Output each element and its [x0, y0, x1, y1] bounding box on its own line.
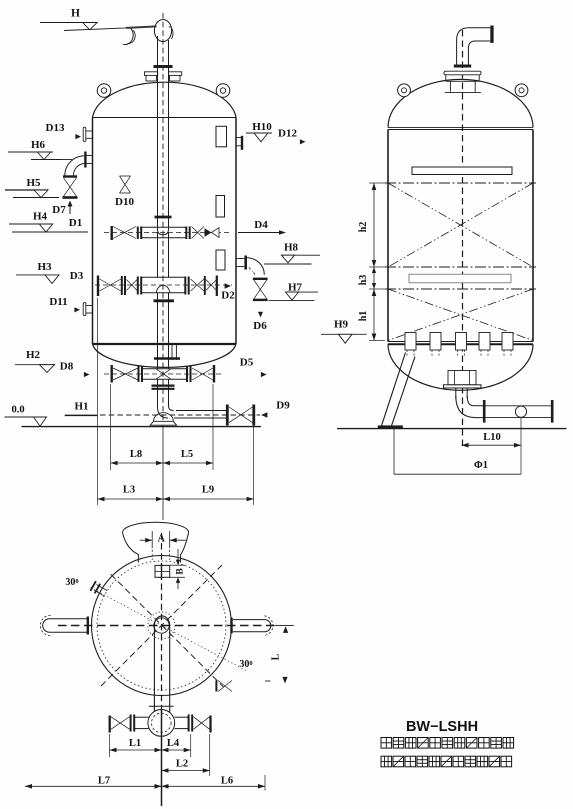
dimension L9 [163, 485, 254, 502]
blind flange circle on outlet pipe [515, 406, 526, 417]
top view funnel manway [123, 522, 189, 562]
dimension L1 [110, 738, 162, 752]
level marker H5 [5, 177, 59, 198]
svg-text:H5: H5 [26, 177, 41, 189]
top view inner circle dashed [97, 561, 226, 690]
nozzle and elbow to valve D7 on left wall [61, 152, 93, 176]
30 degree dotted line [91, 588, 248, 671]
support leg [378, 353, 415, 430]
gooseneck vent bulb at top of pipe [154, 20, 173, 42]
svg-text:D12: D12 [278, 128, 297, 140]
svg-text:L10: L10 [483, 432, 501, 443]
top view horizontal centerline [58, 625, 275, 627]
valve D6 (hourglass) [253, 279, 268, 300]
dimension A [140, 531, 186, 560]
svg-text:H9: H9 [334, 319, 349, 331]
svg-text:L9: L9 [202, 485, 214, 496]
ground line right [337, 428, 567, 430]
svg-text:D5: D5 [240, 357, 254, 369]
svg-text:h1: h1 [358, 311, 369, 322]
label D5 with arrow [240, 357, 267, 378]
dimension L2 [162, 759, 210, 773]
dimension L5 [163, 449, 213, 465]
right vessel lifting lug right [515, 84, 528, 97]
sight glass upper on right wall [216, 126, 227, 147]
label D13 with arrow [46, 122, 81, 139]
left vessel top manway collar [145, 72, 182, 81]
level marker H3 [16, 261, 59, 284]
center dip pipe with dashed centerline [158, 13, 169, 232]
bottom horizontal pipe with valves top view [110, 715, 211, 733]
svg-text:H8: H8 [284, 242, 299, 254]
label D11 with arrow [49, 296, 80, 312]
resin layer boundary top of h2 [385, 182, 536, 184]
label D7 with up arrow [52, 201, 72, 217]
top view vertical centerline [161, 533, 163, 806]
bottom flange circle top view [148, 710, 175, 737]
svg-text:L1: L1 [129, 738, 141, 749]
small valve lower right of circle [216, 681, 232, 692]
extension lines for L dimensions [98, 298, 254, 520]
svg-text:h2: h2 [358, 222, 369, 233]
svg-text:H2: H2 [26, 349, 41, 361]
svg-text:D8: D8 [60, 361, 74, 373]
nozzle B rectangle [155, 565, 170, 577]
label D8 with arrow [60, 361, 90, 378]
right vessel bottom nozzle [444, 371, 482, 399]
svg-text:D2: D2 [221, 290, 235, 302]
level marker H6 [8, 139, 61, 160]
right vessel shell [388, 79, 533, 390]
gooseneck open end curl [123, 27, 135, 44]
right vessel top manway [444, 71, 481, 92]
drain pipe below bottom distributor [152, 379, 175, 406]
dimension L7 [25, 776, 162, 789]
dip pipe flange [154, 65, 173, 68]
svg-text:h3: h3 [358, 275, 369, 286]
chinese title line 2 (glyph blocks) [381, 756, 512, 767]
cross bracing X in h2 section [388, 183, 533, 267]
45 degree dashed diagonals [101, 565, 224, 687]
valve D7 (hourglass) [63, 177, 78, 198]
dimension L4 [162, 738, 191, 752]
svg-text:D11: D11 [49, 296, 67, 308]
left vessel lifting lug right [216, 84, 230, 98]
right vessel top nozzle pipe and elbow [454, 26, 494, 67]
chinese title line 1 (glyph blocks) [381, 738, 514, 749]
right vessel bottom elbow and outlet pipe [456, 396, 552, 423]
dimension B [170, 549, 186, 589]
svg-text:D9: D9 [276, 400, 290, 412]
label D4 with outlet arrow [238, 219, 286, 235]
svg-text:D13: D13 [46, 122, 65, 134]
center hub circles [148, 612, 175, 639]
svg-text:D10: D10 [115, 196, 134, 208]
dimension h3 [358, 267, 385, 289]
30 degree nozzle stub upper-left [90, 581, 107, 596]
dimension L at right [265, 626, 294, 684]
svg-text:L6: L6 [221, 776, 233, 787]
level marker H9 [321, 319, 367, 344]
dimension L6 [162, 776, 266, 789]
extension lines bottom dimensions [110, 734, 266, 791]
svg-text:Φ1: Φ1 [474, 460, 488, 471]
bottom distributor pipe with valves [104, 365, 222, 383]
resin layer boundary h2/h3 [385, 266, 536, 268]
svg-text:D7: D7 [52, 204, 66, 216]
small pipe stub below bottom tangent [172, 345, 176, 360]
bottom outlet pipe to valve D9 [100, 411, 260, 419]
svg-text:H6: H6 [31, 139, 46, 151]
svg-text:L5: L5 [181, 449, 193, 460]
left side pipe top view [40, 615, 88, 635]
valve D9 [227, 405, 254, 426]
svg-text:L2: L2 [176, 759, 188, 770]
top view outer circle [92, 556, 232, 696]
svg-text:H: H [71, 8, 80, 20]
flange on downcomer above bottom distributor [154, 357, 180, 359]
elevation 0.0 marker [5, 405, 47, 427]
middle distributor pipe with valves [95, 276, 232, 297]
cross bracing X in h1 section [388, 289, 533, 341]
dimension h1 [358, 289, 385, 341]
dimension L10 [462, 418, 522, 474]
left vessel lifting lug left [97, 84, 111, 98]
svg-text:D6: D6 [253, 320, 267, 332]
svg-text:L8: L8 [130, 449, 142, 460]
nozzle D13 on left wall [83, 127, 92, 141]
nozzle on right wall upper [236, 136, 242, 150]
svg-text:H1: H1 [74, 401, 88, 413]
right vessel centerline dashed [462, 30, 464, 447]
level marker H10 [246, 121, 272, 142]
sight glass lower on right wall [216, 250, 225, 270]
svg-text:D1: D1 [69, 217, 82, 229]
dimension L3 [98, 485, 164, 502]
level marker H8 [264, 242, 320, 265]
bottom elbow and base plate [150, 404, 176, 425]
dimension phi-1 [394, 429, 521, 475]
svg-text:L4: L4 [167, 738, 180, 749]
level marker H [40, 8, 157, 31]
ground line left [22, 426, 262, 428]
svg-text:L: L [271, 653, 282, 660]
top distributor pipe with valves [104, 217, 230, 240]
main downcomer pipe below middle distributor [154, 232, 175, 420]
label D12 with arrow [278, 128, 305, 145]
svg-text:B: B [176, 568, 186, 575]
level marker H7 [269, 282, 319, 301]
svg-text:BW−LSHH: BW−LSHH [406, 719, 478, 735]
svg-text:D4: D4 [254, 219, 268, 231]
nozzle on right wall to D6 [236, 256, 264, 276]
right vessel lifting lug left [398, 84, 411, 97]
resin layer boundary h3/h1 [385, 288, 536, 290]
dimension L8 [111, 449, 163, 465]
level marker H4 [9, 211, 88, 233]
svg-text:D3: D3 [70, 270, 84, 282]
nozzle D11 on left wall [83, 303, 92, 316]
label D2 with arrow [221, 283, 235, 301]
valve D10 symbol (hourglass) [120, 176, 131, 193]
left vessel shell [93, 82, 237, 367]
level marker H2 [15, 349, 55, 372]
svg-text:H3: H3 [37, 261, 52, 273]
svg-text:L7: L7 [98, 776, 110, 787]
right side pipe top view [232, 616, 273, 636]
sight glass middle on right wall [216, 196, 225, 218]
central pipe downward in top view [149, 616, 174, 717]
svg-text:H4: H4 [33, 211, 48, 223]
svg-text:H10: H10 [252, 121, 272, 133]
dimension h2 with arrows [358, 183, 385, 267]
svg-text:0.0: 0.0 [11, 405, 24, 416]
middle distributor rectangle in h3 [409, 274, 511, 283]
label D6 with down arrow [253, 312, 267, 332]
sight glass on right vessel [412, 167, 512, 175]
bottom nozzles row [405, 333, 513, 358]
label D9 with arrow [261, 400, 290, 418]
level marker H1 [65, 401, 98, 416]
svg-text:L3: L3 [123, 485, 135, 496]
